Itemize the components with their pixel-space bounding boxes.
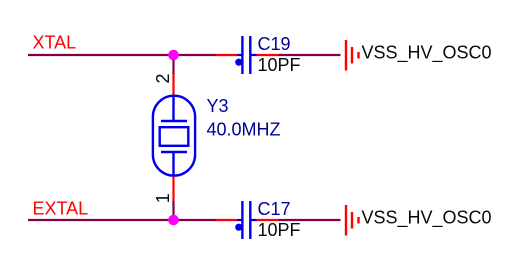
- capacitor C19 value label 10PF: [258, 55, 301, 75]
- svg-text:VSS_HV_OSC0: VSS_HV_OSC0: [362, 207, 492, 228]
- capacitor C19 reference label: [258, 34, 291, 54]
- capacitor C17 reference label: [258, 199, 291, 219]
- wire segment C19 to VSS power symbol: [279, 54, 341, 56]
- net label XTAL: [33, 33, 77, 53]
- crystal Y3 pin 1 (bottom pin): [172, 177, 174, 202]
- pin number 2: [153, 73, 173, 83]
- wire EXTAL horizontal segment: [28, 219, 216, 221]
- junction node at XTAL: [168, 50, 179, 61]
- crystal Y3 body: [153, 96, 195, 177]
- wire vertical from XTAL junction down: [172, 55, 174, 75]
- svg-text:2: 2: [153, 73, 173, 83]
- svg-text:Y3: Y3: [207, 96, 229, 116]
- svg-text:VSS_HV_OSC0: VSS_HV_OSC0: [362, 42, 492, 63]
- power net name VSS_HV_OSC0 bottom: [362, 207, 492, 228]
- svg-text:EXTAL: EXTAL: [33, 199, 89, 219]
- capacitor C17: [216, 201, 279, 239]
- junction node at EXTAL: [168, 215, 179, 226]
- capacitor C19: [216, 36, 279, 74]
- crystal Y3 value label 40.0MHZ: [207, 120, 281, 140]
- capacitor C17 value label 10PF: [258, 220, 301, 240]
- wire segment C17 to VSS power symbol: [279, 219, 341, 221]
- pin number 1: [153, 193, 173, 203]
- crystal Y3 pin 2 (top pin): [172, 74, 174, 95]
- svg-text:XTAL: XTAL: [33, 33, 77, 53]
- wire XTAL horizontal segment: [28, 54, 216, 56]
- power net name VSS_HV_OSC0 top: [362, 42, 492, 63]
- svg-text:C17: C17: [258, 199, 291, 219]
- svg-text:10PF: 10PF: [258, 55, 301, 75]
- power symbol VSS_HV_OSC0 top: [346, 40, 359, 71]
- crystal Y3 reference label: [207, 96, 229, 116]
- svg-text:40.0MHZ: 40.0MHZ: [207, 120, 281, 140]
- svg-text:1: 1: [153, 193, 173, 203]
- svg-text:C19: C19: [258, 34, 291, 54]
- svg-text:10PF: 10PF: [258, 220, 301, 240]
- power symbol VSS_HV_OSC0 bottom: [346, 205, 359, 236]
- wire vertical from crystal pin 1 to EXTAL junction: [172, 201, 174, 220]
- net label EXTAL: [33, 199, 89, 219]
